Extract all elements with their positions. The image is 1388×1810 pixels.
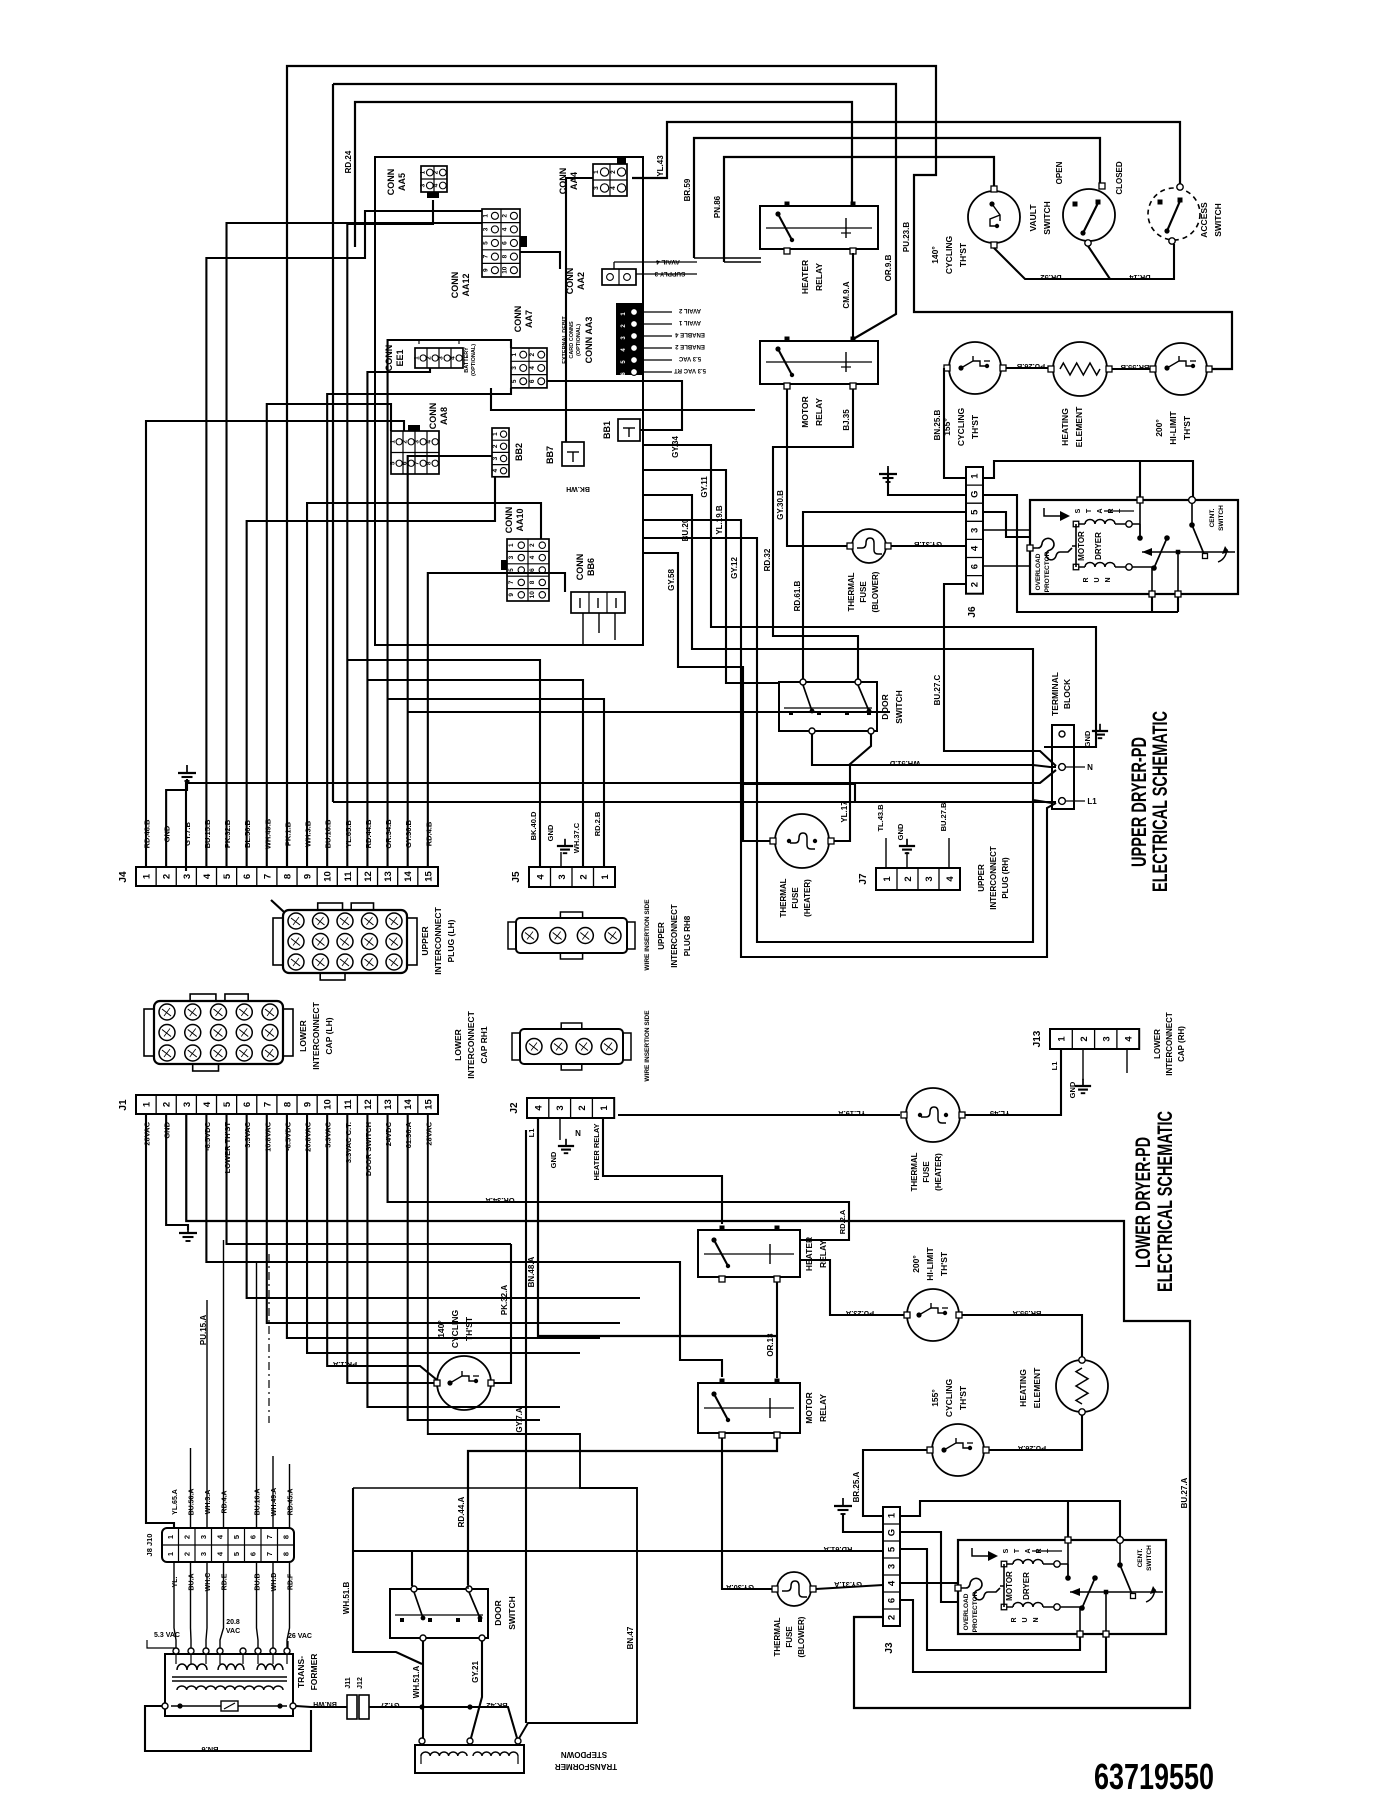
svg-text:6: 6 xyxy=(242,1102,253,1107)
wire J6 G to motor frame xyxy=(983,495,1178,612)
svg-text:5: 5 xyxy=(232,1552,241,1556)
svg-text:A: A xyxy=(1097,508,1104,513)
svg-text:1: 1 xyxy=(413,356,420,360)
wire PN.86 to 140 cycling thst xyxy=(713,157,994,262)
svg-text:U: U xyxy=(1022,1617,1029,1622)
heating element upper xyxy=(1048,342,1112,447)
svg-text:YL.17: YL.17 xyxy=(840,801,849,823)
svg-text:WIRE INSERTION SIDE: WIRE INSERTION SIDE xyxy=(644,899,651,971)
svg-text:J6: J6 xyxy=(967,606,978,618)
wire CONN AA12 to CONN AA2 xyxy=(520,252,560,269)
svg-text:1: 1 xyxy=(1057,1036,1068,1042)
svg-text:AA12: AA12 xyxy=(461,273,471,296)
svg-text:DR.52: DR.52 xyxy=(1040,273,1061,282)
svg-text:WH.51.A: WH.51.A xyxy=(412,1666,421,1699)
connector CONN BB6 xyxy=(571,554,625,613)
connector J11 J12 xyxy=(345,1677,498,1719)
svg-text:WH.3.A: WH.3.A xyxy=(205,1490,212,1515)
svg-text:BR.55.A: BR.55.A xyxy=(1012,1309,1041,1318)
svg-text:J5: J5 xyxy=(511,871,522,883)
svg-text:RD.45.A: RD.45.A xyxy=(288,1489,295,1516)
svg-text:PLUG (LH): PLUG (LH) xyxy=(446,919,456,962)
svg-text:BK.40.D: BK.40.D xyxy=(529,811,538,840)
connector CONN EE1 battery optional xyxy=(384,340,477,376)
wire J13 pin4 stub xyxy=(1126,1049,1128,1073)
svg-text:GY.7.A: GY.7.A xyxy=(515,1407,524,1433)
svg-text:BU.B: BU.B xyxy=(255,1573,262,1590)
svg-text:BB7: BB7 xyxy=(545,446,555,464)
wire GY.27 junction to stepdown xyxy=(419,1704,517,1738)
thermal fuse blower upper xyxy=(847,529,891,612)
svg-text:10: 10 xyxy=(323,871,334,882)
svg-text:9: 9 xyxy=(303,874,314,879)
svg-text:1: 1 xyxy=(599,1105,610,1111)
svg-text:3: 3 xyxy=(557,874,568,879)
svg-text:7: 7 xyxy=(262,874,273,879)
svg-text:YL.: YL. xyxy=(172,1577,179,1588)
svg-text:TH'ST: TH'ST xyxy=(958,242,968,267)
svg-text:PROTECTOR: PROTECTOR xyxy=(972,1591,979,1632)
svg-text:8: 8 xyxy=(425,461,432,465)
svg-text:BB6: BB6 xyxy=(586,558,596,576)
wire RD.2.B J5 pin1 xyxy=(593,811,604,867)
wires J8 to transformer xyxy=(174,1600,290,1648)
svg-text:GY.7.B: GY.7.B xyxy=(183,822,192,846)
label 26 VAC xyxy=(288,1633,312,1648)
svg-text:6: 6 xyxy=(970,564,981,569)
svg-text:BU.16.A: BU.16.A xyxy=(255,1489,262,1516)
wire outer loop 2 xyxy=(643,538,1033,942)
wire OR.13 relay to relay xyxy=(766,1282,777,1378)
labels J1 pin names xyxy=(143,1121,434,1176)
svg-text:3: 3 xyxy=(199,1535,208,1539)
svg-text:3: 3 xyxy=(482,227,489,231)
wire J6 pin6 to motor xyxy=(983,565,1030,567)
svg-text:3: 3 xyxy=(555,1105,566,1110)
svg-text:TERMINAL: TERMINAL xyxy=(1050,672,1060,716)
wire CM.9.A heater relay to motor relay xyxy=(842,253,853,338)
svg-text:8: 8 xyxy=(282,1535,291,1539)
svg-text:WH.37.C: WH.37.C xyxy=(572,822,581,853)
svg-text:PK.32.A: PK.32.A xyxy=(500,1285,509,1315)
svg-text:3: 3 xyxy=(182,1102,193,1107)
svg-text:UPPER: UPPER xyxy=(977,864,986,892)
svg-text:GY.30.B: GY.30.B xyxy=(776,490,785,520)
svg-text:S: S xyxy=(1075,508,1082,513)
svg-text:L1: L1 xyxy=(527,1129,536,1138)
wire L1 J13 pin1 to thermal fuse xyxy=(965,1049,1061,1115)
thermostat 140 cycling thst upper xyxy=(930,186,1020,274)
svg-text:10: 10 xyxy=(323,1099,334,1110)
svg-text:200°: 200° xyxy=(911,1255,921,1273)
wire PU.26.A 155 to heating element xyxy=(989,1415,1082,1453)
svg-text:4: 4 xyxy=(433,183,440,187)
svg-text:11: 11 xyxy=(343,1099,354,1110)
connector CONN AA10 xyxy=(501,507,549,601)
svg-text:6: 6 xyxy=(249,1552,258,1556)
svg-text:5.3 VAC: 5.3 VAC xyxy=(678,355,701,361)
svg-text:OR.13: OR.13 xyxy=(766,1333,775,1357)
thermostat 200 hi-limit thst upper xyxy=(1150,343,1212,445)
svg-text:5.3 VAC: 5.3 VAC xyxy=(154,1632,180,1639)
svg-text:BJ.35: BJ.35 xyxy=(842,409,851,431)
ground at J7 pin2 xyxy=(896,823,915,868)
svg-text:BR.55.B: BR.55.B xyxy=(1120,363,1149,372)
svg-text:ACCESS: ACCESS xyxy=(1199,202,1209,238)
svg-text:BN.48.A: BN.48.A xyxy=(527,1256,536,1287)
svg-text:3: 3 xyxy=(970,528,981,533)
svg-text:4: 4 xyxy=(202,873,213,879)
svg-text:UPPER: UPPER xyxy=(420,926,430,955)
svg-text:5: 5 xyxy=(970,509,981,515)
svg-text:CYCLING: CYCLING xyxy=(944,235,954,274)
connector BB2 xyxy=(492,428,524,477)
svg-text:WH.C: WH.C xyxy=(205,1573,212,1592)
svg-text:RD.61.A: RD.61.A xyxy=(823,1545,852,1554)
svg-text:RELAY: RELAY xyxy=(818,1394,828,1422)
svg-text:1: 1 xyxy=(142,1101,153,1107)
label 20.8 VAC xyxy=(226,1619,240,1635)
svg-text:L1: L1 xyxy=(1087,797,1097,806)
svg-text:HEATER: HEATER xyxy=(804,1237,814,1271)
svg-text:J7: J7 xyxy=(858,873,869,885)
svg-text:R: R xyxy=(1083,577,1090,582)
svg-text:20.8: 20.8 xyxy=(226,1619,240,1626)
svg-text:2: 2 xyxy=(492,444,499,448)
svg-text:TH'ST: TH'ST xyxy=(464,1316,474,1341)
svg-text:CONN: CONN xyxy=(428,403,438,430)
svg-text:15: 15 xyxy=(423,1099,434,1110)
svg-text:LOWER: LOWER xyxy=(1153,1029,1162,1059)
motor M1 upper with overload protector and cent switch xyxy=(1027,497,1238,597)
svg-text:GY.27: GY.27 xyxy=(380,1701,399,1708)
svg-text:AA2: AA2 xyxy=(576,272,586,290)
svg-text:AA8: AA8 xyxy=(439,407,449,425)
svg-text:2: 2 xyxy=(1079,1036,1090,1041)
svg-text:PK.1.B: PK.1.B xyxy=(283,821,292,846)
svg-text:CLOSED: CLOSED xyxy=(1115,161,1124,195)
svg-text:(OPTIONAL): (OPTIONAL) xyxy=(471,344,477,376)
switch VAULT SWITCH xyxy=(1028,161,1124,246)
part number 63719550 xyxy=(1094,1756,1214,1797)
connector UPPER INTERCONNECT PLUG (LH) xyxy=(271,900,456,980)
wire GY.30.A motor relay to thermal fuse blower xyxy=(722,1438,774,1592)
svg-text:LOWER DRYER-PD: LOWER DRYER-PD xyxy=(1132,1137,1155,1268)
label UPPER INTERCONNECT PLUG (RH) xyxy=(977,846,1010,910)
svg-text:DRYER: DRYER xyxy=(1022,1572,1031,1600)
svg-text:HEATER RELAY: HEATER RELAY xyxy=(592,1123,601,1180)
svg-text:3: 3 xyxy=(437,356,444,360)
svg-text:CM.9.A: CM.9.A xyxy=(842,281,851,308)
svg-text:THERMAL: THERMAL xyxy=(773,1617,782,1656)
svg-text:BR.59: BR.59 xyxy=(683,178,692,201)
svg-text:SWITCH: SWITCH xyxy=(507,1596,517,1630)
wire J4 pin15 to BB6 xyxy=(428,573,565,867)
svg-text:1: 1 xyxy=(389,440,396,444)
svg-text:2: 2 xyxy=(577,1105,588,1110)
svg-text:4: 4 xyxy=(501,227,508,231)
wire top loop 2 to motor relay OR.9.B xyxy=(333,84,896,802)
svg-text:5: 5 xyxy=(508,568,515,572)
svg-text:ELECTRICAL SCHEMATIC: ELECTRICAL SCHEMATIC xyxy=(1149,711,1172,892)
svg-text:AA7: AA7 xyxy=(524,310,534,328)
dash-dot lower thst linkage xyxy=(268,1254,270,1423)
connector CONN AA2 xyxy=(565,258,697,294)
wire J1 pin1 to J8 pin1 xyxy=(146,1114,174,1528)
svg-text:CONN: CONN xyxy=(384,345,394,372)
wire YL.43 CONN AA4 to access switch xyxy=(632,122,1180,184)
svg-text:9: 9 xyxy=(303,1102,314,1107)
svg-text:DRYER: DRYER xyxy=(1094,532,1103,560)
wire YL.19.B xyxy=(643,470,779,683)
svg-text:12: 12 xyxy=(363,1099,374,1110)
svg-text:SWITCH: SWITCH xyxy=(1146,1545,1153,1571)
wire GY.11 xyxy=(643,445,1096,747)
svg-text:155°: 155° xyxy=(930,1389,940,1407)
svg-text:RD.E: RD.E xyxy=(222,1573,229,1590)
svg-text:GND: GND xyxy=(1068,1081,1077,1098)
svg-text:RD.24: RD.24 xyxy=(344,150,353,173)
wire PU.26.B xyxy=(1006,362,1048,371)
svg-text:ELECTRICAL SCHEMATIC: ELECTRICAL SCHEMATIC xyxy=(1154,1111,1177,1292)
svg-text:N: N xyxy=(1087,763,1093,772)
connector J4 xyxy=(118,867,438,886)
svg-text:STEPDOWN: STEPDOWN xyxy=(561,1750,607,1759)
ground at J3 G pin xyxy=(834,1498,883,1532)
svg-text:3: 3 xyxy=(1101,1036,1112,1041)
ground at J5 pin3 xyxy=(546,824,573,867)
svg-text:TH'ST: TH'ST xyxy=(1182,415,1192,440)
wire J1 pin15 BN.47 loop xyxy=(428,1114,637,1740)
svg-text:6: 6 xyxy=(249,1535,258,1539)
ground at J2 pin3 xyxy=(549,1118,581,1168)
labels J8 wire names xyxy=(172,1483,295,1528)
svg-text:8: 8 xyxy=(282,874,293,879)
svg-text:BU.A: BU.A xyxy=(189,1573,196,1590)
svg-text:WH.51.D: WH.51.D xyxy=(889,759,920,768)
connector BB1 xyxy=(602,419,640,441)
svg-text:BN.47: BN.47 xyxy=(626,1626,635,1649)
wire J3 G to motor lower xyxy=(900,1532,958,1602)
svg-text:GY.58: GY.58 xyxy=(667,569,676,591)
svg-text:GND: GND xyxy=(546,824,555,841)
svg-text:PU.23.A: PU.23.A xyxy=(845,1309,874,1318)
wire RD.24 to heater relay xyxy=(344,102,852,247)
wire J4 pin4 to CONN AA12 xyxy=(206,211,482,867)
svg-text:8: 8 xyxy=(529,580,536,584)
svg-text:A: A xyxy=(1025,1548,1032,1553)
svg-text:12: 12 xyxy=(363,871,374,882)
wire BR.55.B xyxy=(1112,363,1150,372)
svg-text:4: 4 xyxy=(202,1101,213,1107)
svg-text:ENABLE 2: ENABLE 2 xyxy=(675,343,705,349)
svg-text:PU.26.B: PU.26.B xyxy=(1016,362,1045,371)
svg-text:7: 7 xyxy=(482,254,489,258)
svg-text:TRANSFORMER: TRANSFORMER xyxy=(555,1762,617,1771)
svg-text:PROTECTOR: PROTECTOR xyxy=(1044,551,1051,592)
svg-text:6: 6 xyxy=(887,1598,898,1603)
terminal block xyxy=(1050,672,1108,809)
wire J4 pin12 to CONN EE1 xyxy=(367,368,430,867)
svg-text:HEATER: HEATER xyxy=(800,260,810,294)
svg-text:4: 4 xyxy=(945,876,956,882)
wire J4 pin11 branch to J5 xyxy=(347,660,540,867)
wire J1 pin12 xyxy=(367,1114,560,1407)
svg-text:PU.26.A: PU.26.A xyxy=(1017,1444,1046,1453)
wire J4 pin6 to BB2 xyxy=(247,477,495,867)
wire J3 pin6 to motor bottom pin2 xyxy=(900,1600,1106,1672)
wire J1 pin7 xyxy=(267,1114,620,1323)
svg-text:3: 3 xyxy=(924,876,935,881)
svg-text:WH.D: WH.D xyxy=(271,1573,278,1592)
svg-text:PK.1.A: PK.1.A xyxy=(332,1360,357,1369)
transformer T1 xyxy=(162,1648,319,1716)
svg-text:63719550: 63719550 xyxy=(1094,1756,1214,1797)
thermostat 140 cycling lower xyxy=(434,1309,494,1410)
svg-text:2: 2 xyxy=(425,356,432,360)
wire J4 pin12 branch xyxy=(367,680,583,867)
svg-text:BU.27.C: BU.27.C xyxy=(933,674,942,705)
svg-text:UPPER DRYER-PD: UPPER DRYER-PD xyxy=(1128,737,1151,867)
svg-text:GY.21: GY.21 xyxy=(471,1661,480,1683)
svg-text:PN.86: PN.86 xyxy=(713,195,722,218)
wire J4 pin5 to CONN AA12 xyxy=(227,223,482,867)
wire GY.31.A fuse to J3 pin4 xyxy=(816,1580,883,1589)
svg-text:TH'ST: TH'ST xyxy=(958,1385,968,1410)
wire J1 pin3 BU.27.A loop xyxy=(186,1114,1190,1708)
wire J4 pin11 to CONN AA5 xyxy=(347,200,433,867)
wire BN.6 transformer loop xyxy=(145,1706,311,1754)
svg-text:N: N xyxy=(575,1129,581,1138)
wire J4 pin14 to BB2 xyxy=(408,456,492,867)
svg-text:BU.56.A: BU.56.A xyxy=(189,1489,196,1516)
wire J6 pin1 to cent switch xyxy=(983,461,1193,499)
svg-text:G: G xyxy=(887,1529,898,1536)
svg-text:HEATING: HEATING xyxy=(1060,408,1070,446)
svg-text:GY.31.B: GY.31.B xyxy=(913,540,942,549)
svg-text:MOTOR: MOTOR xyxy=(804,1392,814,1423)
svg-text:3: 3 xyxy=(420,183,427,187)
svg-text:AVAIL 2: AVAIL 2 xyxy=(678,307,701,313)
connector J8 J10 xyxy=(145,1528,294,1562)
wire YL.19.A xyxy=(618,1109,900,1118)
svg-text:2: 2 xyxy=(401,440,408,444)
svg-text:YL.45: YL.45 xyxy=(990,1109,1010,1118)
svg-text:8: 8 xyxy=(501,254,508,258)
svg-text:OR.9.B: OR.9.B xyxy=(884,254,893,281)
svg-text:4: 4 xyxy=(529,555,536,559)
svg-text:2: 2 xyxy=(162,874,173,879)
svg-text:CONN: CONN xyxy=(575,554,585,581)
wire L1 long line xyxy=(333,801,1056,803)
svg-text:7: 7 xyxy=(508,580,515,584)
motor M2 lower with overload protector and cent switch xyxy=(955,1537,1166,1637)
svg-text:HI-LIMIT: HI-LIMIT xyxy=(925,1246,935,1280)
svg-text:3: 3 xyxy=(887,1564,898,1569)
svg-text:2: 2 xyxy=(501,214,508,218)
thermostat 155 cycling lower xyxy=(927,1378,989,1476)
svg-text:2: 2 xyxy=(970,582,981,587)
svg-text:RD.32: RD.32 xyxy=(763,548,772,571)
svg-text:4: 4 xyxy=(425,440,432,444)
wire J3 pin5 to motor bottom pin xyxy=(900,1549,1080,1650)
svg-text:1: 1 xyxy=(600,874,611,880)
wire J4 pin8 top loop to PU.23.B and 200 thst xyxy=(287,66,1232,867)
svg-text:1: 1 xyxy=(166,1535,175,1539)
svg-text:CAP (RH): CAP (RH) xyxy=(1177,1026,1186,1062)
svg-text:RELAY: RELAY xyxy=(814,263,824,291)
wire BN.25.B 155 thst to J6 pin1 xyxy=(933,368,966,478)
svg-text:CARD CONNS: CARD CONNS xyxy=(569,321,575,359)
svg-text:26 VAC: 26 VAC xyxy=(288,1633,312,1640)
connector LOWER INTERCONNECT CAP (LH) xyxy=(144,994,334,1071)
svg-text:3: 3 xyxy=(492,456,499,460)
svg-text:2: 2 xyxy=(433,170,440,174)
wire J4 pin10 to CONN AA7 xyxy=(327,388,511,867)
svg-text:N: N xyxy=(1033,1617,1040,1622)
svg-text:10: 10 xyxy=(501,266,508,274)
svg-text:3: 3 xyxy=(182,874,193,879)
svg-text:THERMAL: THERMAL xyxy=(910,1152,919,1191)
wire J4 pin2 to ground xyxy=(166,765,196,867)
wire BU.27.C J6 pin2 to terminal N xyxy=(933,584,1056,766)
wire CONN AA7 to GY.34 to BB1 xyxy=(547,381,682,458)
svg-text:(HEATER): (HEATER) xyxy=(934,1153,943,1191)
connector CONN AA4 xyxy=(558,158,627,196)
svg-text:(BLOWER): (BLOWER) xyxy=(871,571,880,612)
svg-text:4: 4 xyxy=(529,366,536,370)
svg-text:WH.49.A: WH.49.A xyxy=(271,1488,278,1516)
svg-text:SWITCH: SWITCH xyxy=(1213,203,1223,237)
svg-text:VAC: VAC xyxy=(226,1628,240,1635)
svg-text:J13: J13 xyxy=(1032,1030,1043,1047)
svg-text:CONN: CONN xyxy=(513,306,523,333)
svg-text:4: 4 xyxy=(533,1105,544,1111)
wire GY.58 loop xyxy=(643,553,770,841)
svg-text:INTERCONNECT: INTERCONNECT xyxy=(466,1010,476,1078)
wire J1 pin8 xyxy=(287,1114,600,1338)
svg-text:YL.65.A: YL.65.A xyxy=(172,1489,179,1515)
svg-text:HI-LIMIT: HI-LIMIT xyxy=(1168,410,1178,444)
svg-text:PLUG RH8: PLUG RH8 xyxy=(683,915,692,956)
svg-text:CONN: CONN xyxy=(504,507,514,534)
svg-text:SWITCH: SWITCH xyxy=(1218,505,1225,531)
svg-text:DR.14: DR.14 xyxy=(1129,273,1151,282)
relay K3 HEATER RELAY lower xyxy=(698,1226,828,1283)
svg-text:3: 3 xyxy=(511,366,518,370)
svg-text:VAULT: VAULT xyxy=(1028,204,1038,232)
svg-text:N: N xyxy=(1105,577,1112,582)
thermal fuse blower lower xyxy=(772,1572,816,1657)
svg-text:RD.4.A: RD.4.A xyxy=(222,1491,229,1514)
switch DOOR SWITCH lower xyxy=(390,1586,517,1641)
svg-text:J8 J10: J8 J10 xyxy=(145,1534,154,1557)
svg-text:CONN: CONN xyxy=(386,169,396,196)
wire TL.43.B J7 pin1 xyxy=(876,804,886,868)
svg-text:GY.12: GY.12 xyxy=(730,557,739,579)
svg-text:13: 13 xyxy=(383,1099,394,1110)
svg-text:GY.11: GY.11 xyxy=(700,476,709,498)
svg-text:ELEMENT: ELEMENT xyxy=(1032,1367,1042,1408)
thermostat 200 hi-limit lower xyxy=(904,1246,962,1341)
svg-text:CAP (LH): CAP (LH) xyxy=(324,1017,334,1054)
wire BU.20 xyxy=(643,495,1052,803)
wire RD.61.B J6 pin5 to door switch xyxy=(793,512,966,680)
svg-text:INTERCONNECT: INTERCONNECT xyxy=(670,904,679,968)
wire PU.23.A heater relay to 200 thst xyxy=(800,1260,904,1318)
svg-text:BN.WH: BN.WH xyxy=(313,1700,337,1707)
switch DOOR SWITCH upper xyxy=(779,679,904,734)
